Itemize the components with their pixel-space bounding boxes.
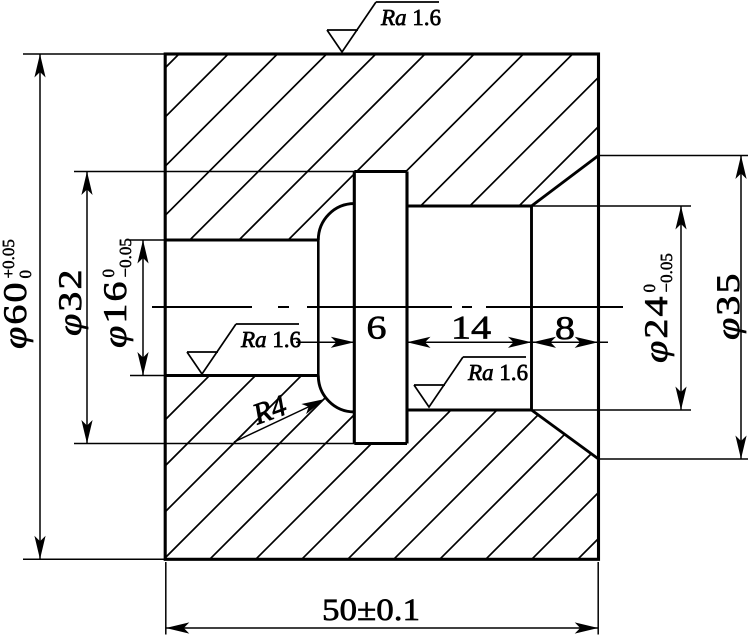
phi24 bore top edge bbox=[407, 205, 532, 208]
cone top slant bbox=[532, 156, 599, 207]
dimension line phi60 bbox=[39, 54, 41, 559]
phi16 bore top edge bbox=[165, 239, 318, 242]
dimension text 14 bbox=[454, 317, 490, 339]
dimension text 6 bbox=[368, 317, 385, 339]
extension line phi16 top bbox=[130, 239, 165, 241]
extension line phi24 top bbox=[532, 205, 692, 207]
dimension label phi60 +0.05/0 bbox=[3, 240, 33, 348]
dimension label phi16 0/-0.05 bbox=[103, 239, 133, 347]
dimension label phi35 bbox=[717, 275, 746, 339]
R4 fillet arc top bbox=[318, 204, 354, 240]
section hatching of cut material (upper half) bbox=[0, 54, 749, 559]
groove right wall bbox=[405, 172, 408, 444]
arrow at groove left wall bbox=[331, 337, 355, 348]
R4 label bbox=[250, 395, 288, 425]
part body outline bbox=[165, 54, 598, 559]
phi24 bore bottom edge bbox=[407, 409, 532, 412]
extension line phi24 bottom bbox=[532, 409, 692, 411]
extension line phi60 top bbox=[23, 53, 165, 55]
arrow 14 right bbox=[508, 337, 532, 348]
groove left wall bbox=[353, 172, 356, 444]
extension line phi32 top bbox=[74, 171, 354, 173]
arrow 8 left bbox=[533, 337, 557, 348]
phi16 bore bottom edge bbox=[165, 374, 318, 377]
dimension line phi16 bbox=[142, 240, 144, 376]
surface finish symbol Ra1.6 on top face bbox=[327, 2, 439, 52]
extension line 50 left bbox=[165, 562, 167, 635]
dimension text 50 +/-0.1 bbox=[324, 599, 418, 620]
extension line phi35 top bbox=[599, 155, 749, 157]
R4 fillet arc bottom bbox=[318, 376, 354, 412]
bore end visible edge bbox=[317, 240, 320, 376]
dimension text 8 bbox=[556, 317, 573, 339]
center line (axis) bbox=[152, 306, 623, 308]
groove bottom edge (phi32) bbox=[354, 442, 407, 445]
dimension line 6-14-8 bbox=[296, 341, 608, 343]
groove top edge (phi32) bbox=[354, 170, 407, 173]
dimension label phi24 0/-0.05 bbox=[644, 254, 674, 362]
section hatching of cut material (lower half) bbox=[0, 54, 749, 559]
cone bottom slant bbox=[532, 410, 599, 459]
cone step edge bbox=[530, 206, 533, 410]
extension line 50 right bbox=[597, 562, 599, 635]
dimension line phi32 bbox=[86, 172, 88, 444]
arrow 8 right bbox=[575, 337, 599, 348]
dimension line phi24 bbox=[680, 206, 682, 410]
surface finish symbol Ra1.6 in phi16 bore bbox=[187, 324, 299, 374]
dimension label phi32 bbox=[59, 272, 88, 335]
arrow at groove right wall bbox=[407, 337, 431, 348]
extension line phi60 bottom bbox=[23, 558, 165, 560]
dimension line 50 bbox=[166, 627, 598, 629]
surface finish symbol Ra1.6 in phi24 bore bbox=[414, 357, 526, 407]
extension line phi35 bottom bbox=[599, 458, 749, 460]
extension line phi32 bottom bbox=[74, 443, 354, 445]
R4 leader line and arrow bbox=[234, 401, 322, 443]
dimension line phi35 bbox=[740, 156, 742, 460]
extension line phi16 bottom bbox=[130, 375, 165, 377]
